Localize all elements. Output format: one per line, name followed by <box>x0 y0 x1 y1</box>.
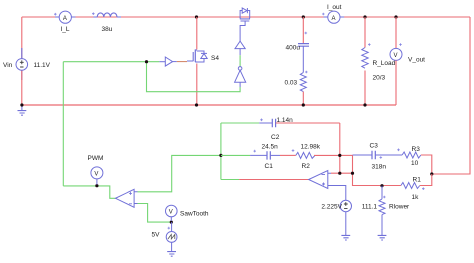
wire: top rail <box>22 16 470 18</box>
wire: op-amp inverting input line <box>331 172 353 174</box>
wire: R2 output to C3 branch stub <box>340 154 353 156</box>
voltmeter PWM <box>88 155 104 185</box>
source: 2.225V reference <box>321 186 351 241</box>
wire: PWM signal to S4 gate driver <box>63 61 159 63</box>
svg-text:R3: R3 <box>412 146 421 153</box>
svg-text:V: V <box>94 171 98 177</box>
svg-text:111.1: 111.1 <box>362 204 378 211</box>
voltmeter SawTooth <box>166 205 209 221</box>
svg-text:I_L: I_L <box>61 26 70 33</box>
capacitor C1 24.5n (middle feedback branch) <box>221 144 280 171</box>
capacitor C2 1.14n (top feedback branch) <box>221 117 340 141</box>
svg-text:A: A <box>63 16 67 22</box>
ammeter I_L <box>54 11 76 33</box>
source: 5V sawtooth generator <box>152 222 178 256</box>
wire: C3 branch / R1 branch vertical tie <box>353 155 401 186</box>
voltage source Vin 11.1V <box>3 17 51 105</box>
svg-text:12.98k: 12.98k <box>301 144 321 151</box>
svg-text:10: 10 <box>411 160 419 167</box>
node: divider junction (Rlower) <box>380 184 383 187</box>
svg-text:V_out: V_out <box>408 57 425 64</box>
node: switch node junction (top rail / S4 drain) <box>195 15 198 18</box>
capacitor 400u with ESR leg <box>286 15 310 72</box>
svg-text:C3: C3 <box>370 143 379 150</box>
svg-text:A: A <box>332 16 336 22</box>
svg-text:PWM: PWM <box>88 155 104 162</box>
voltmeter V_out <box>390 15 425 105</box>
svg-text:2.225V: 2.225V <box>321 204 342 211</box>
svg-text:SawTooth: SawTooth <box>180 211 209 218</box>
gate driver buffer (S4) <box>159 57 187 66</box>
comparator (PWM modulator) <box>116 189 138 207</box>
resistor R2 12.98k <box>280 144 340 171</box>
svg-text:20/3: 20/3 <box>373 74 386 81</box>
node: inverting input junction 1 <box>338 172 341 175</box>
node: gate-driver tee junction <box>145 60 148 63</box>
wire: comparator + input from compensator output <box>138 155 221 191</box>
wire: feedback vertical (C2/R2 junction to inverting input) <box>339 123 341 173</box>
ground (Vin) <box>18 103 27 115</box>
ammeter I_out <box>322 4 344 23</box>
transistor: top synchronous MOSFET with body diode <box>240 8 250 31</box>
svg-text:R_Load: R_Load <box>373 60 396 67</box>
node: Vout sense node <box>430 172 433 175</box>
resistor R1 1k <box>401 174 432 201</box>
wire: comparator output to PWM node <box>63 186 115 198</box>
resistor 0.03 (ESR) <box>285 71 308 107</box>
svg-text:C1: C1 <box>265 163 274 170</box>
svg-text:Vin: Vin <box>3 62 13 69</box>
svg-text:11.1V: 11.1V <box>34 62 51 69</box>
svg-text:5V: 5V <box>152 231 161 238</box>
node: sawtooth junction <box>170 221 173 224</box>
op-amp (Type-3 error amplifier, flipped) <box>309 171 331 189</box>
node: S4 source / ground rail junction <box>195 103 198 106</box>
svg-text:1.14n: 1.14n <box>277 117 294 124</box>
inverter (NOT gate driving top MOSFET) <box>235 55 246 87</box>
resistor R_Load 20/3 <box>362 15 396 106</box>
wire: compensator left vertical (output node) <box>220 123 222 180</box>
resistor R3 10 <box>397 146 432 174</box>
svg-text:R1: R1 <box>413 177 422 184</box>
node: feedback junction at R2 <box>338 154 341 157</box>
wire: right edge sense wire <box>432 17 470 174</box>
node: PWM probe junction <box>95 184 98 187</box>
svg-text:V: V <box>394 53 398 59</box>
wire: PWM vertical run from comparator output <box>62 62 64 186</box>
wire: comparator - input from sawtooth <box>138 204 172 223</box>
node: compensator output node <box>219 154 222 157</box>
inductor 38u <box>92 12 121 33</box>
svg-text:C2: C2 <box>271 134 280 141</box>
wire: S4 source leg <box>196 64 198 106</box>
wire: opamp output line <box>221 179 309 181</box>
svg-text:S4: S4 <box>211 55 219 62</box>
wire: bottom ground rail <box>22 104 396 106</box>
svg-text:24.5n: 24.5n <box>262 144 279 151</box>
svg-text:400u: 400u <box>286 45 301 52</box>
svg-text:V: V <box>169 210 173 216</box>
svg-text:R2: R2 <box>302 163 311 170</box>
svg-text:38u: 38u <box>102 26 113 33</box>
resistor Rlower 111.1 <box>362 186 410 240</box>
transistor S4 (low-side MOSFET with body diode) <box>187 50 219 62</box>
svg-text:1k: 1k <box>412 194 420 201</box>
capacitor C3 318n <box>353 143 403 171</box>
wire: S4 drain leg <box>196 17 198 50</box>
node: inverting input junction 2 <box>351 172 354 175</box>
svg-text:Rlower: Rlower <box>389 204 410 211</box>
svg-text:0.03: 0.03 <box>285 80 298 87</box>
buffer (upper gate driver) <box>235 31 245 55</box>
wire: PWM signal to inverter (top gate driver) <box>147 62 241 92</box>
svg-text:I_out: I_out <box>327 4 342 11</box>
svg-text:318n: 318n <box>372 164 387 171</box>
